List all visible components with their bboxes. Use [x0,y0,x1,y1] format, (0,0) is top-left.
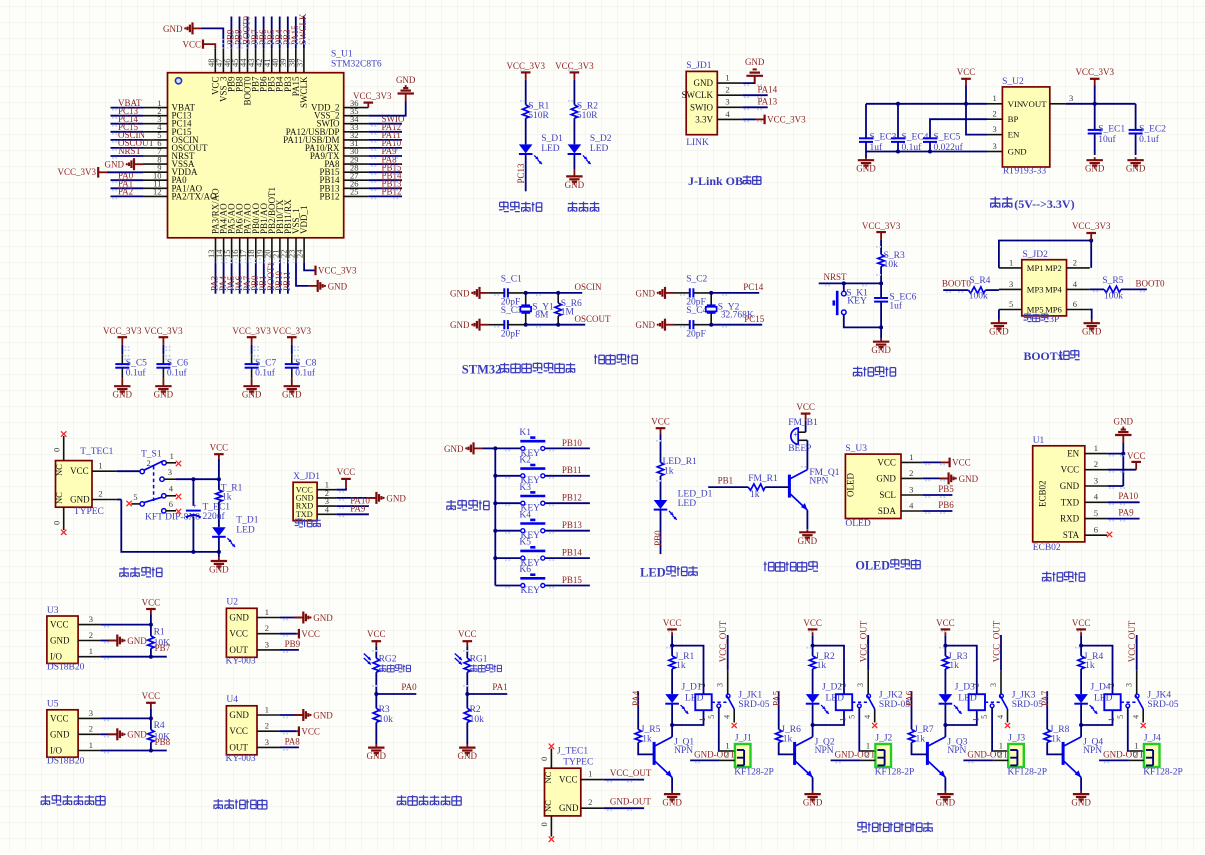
pin 3 output [160,477,164,481]
power VCC [1076,628,1086,630]
pin 34 SWIO [344,123,369,125]
svg-text:2: 2 [909,468,913,478]
capacitor S_C4 20pF [674,324,690,326]
svg-text:SDA: SDA [878,506,897,516]
wire pin35 [368,102,405,116]
IC S_U3 OLED body [845,454,901,518]
power VCC_3V3 [364,101,374,103]
svg-text:KF128-2P: KF128-2P [875,768,915,778]
wire emitter to gnd [812,777,814,791]
wire S_R1 to S_D1 [525,118,527,144]
wire pin36 [367,103,369,108]
wire net PA12 [368,131,402,133]
capacitor S_EC1 10uf [1094,104,1096,130]
svg-text:J_J2: J_J2 [875,734,892,744]
svg-text:FM_B1: FM_B1 [788,418,818,428]
power VCC_3V3 [314,266,316,276]
pin 4 TXD [1085,501,1107,503]
svg-text:2: 2 [1107,683,1116,687]
pin 3 VCC [78,624,100,626]
svg-text:1: 1 [1094,443,1098,453]
svg-text:S_R1: S_R1 [528,101,549,111]
connector J_J3 KF128-2P body [1008,744,1024,767]
pin 1 I/O [78,750,100,752]
wire net OSCOUT [558,324,585,326]
svg-text:3: 3 [909,484,913,494]
wire en/gnd to ground [1107,453,1123,455]
svg-text:BOOT0: BOOT0 [1136,278,1165,288]
svg-text:2: 2 [725,85,729,95]
no-connect [732,723,737,728]
wire BP branch [930,119,987,138]
wire net PB5 [271,17,273,49]
svg-text:NC: NC [54,464,64,476]
ground [108,733,117,735]
wire sw3 to node [176,478,219,480]
svg-text:0.1uf: 0.1uf [295,367,316,378]
pin 2 PC13 [143,115,168,117]
svg-text:3: 3 [265,639,269,649]
svg-text:S_EC2: S_EC2 [1139,125,1166,135]
pin 33 PA12/USB/DP [344,131,369,133]
svg-text:3: 3 [265,737,269,747]
power VCC_3V3 [521,71,531,73]
svg-text:VCC_3V3: VCC_3V3 [506,61,545,71]
wire contact5 to connector [1128,708,1129,751]
wire base [779,742,795,754]
switch K1 KEY [495,447,520,449]
svg-text:VCC_3V3: VCC_3V3 [144,326,183,336]
svg-text:PC13: PC13 [516,163,526,184]
svg-text:T_S1: T_S1 [141,450,162,460]
svg-text:2: 2 [1094,459,1098,469]
wire net OSCOUT [111,147,144,149]
svg-text:EN: EN [1008,130,1020,140]
wire net PB11 [287,262,289,294]
svg-text:J_TEC1: J_TEC1 [557,747,588,757]
resistor J_R1 1k [671,646,673,656]
svg-text:4: 4 [725,109,730,119]
no-connect [1005,723,1010,728]
svg-text:VCC: VCC [301,629,320,639]
pin 42 PB6 [263,48,265,72]
svg-text:DS18B20: DS18B20 [47,663,85,673]
svg-text:VCC_3V3: VCC_3V3 [1075,67,1114,77]
svg-text:PA6: PA6 [904,690,914,706]
svg-text:1k: 1k [642,734,652,744]
pin 4 nc [1142,709,1144,723]
ground [812,791,814,794]
pin 47 VSS_3 [222,48,224,72]
power VCC [298,726,300,736]
svg-text:2: 2 [993,109,997,119]
wire collector [944,725,946,737]
svg-text:GND: GND [396,75,416,85]
capacitor S_C2 20pF [674,292,690,294]
svg-text:TYPEC: TYPEC [74,507,104,517]
connector T_TEC1 TYPEC body [56,461,93,508]
svg-text:GND: GND [313,613,333,623]
svg-text:3: 3 [1069,93,1073,103]
pin 3 GND [987,151,1002,153]
pin 3 VCC [78,717,100,719]
wire net GND-OUT [690,759,720,761]
svg-text:GND: GND [936,798,956,808]
pin 2 VCC [257,633,279,635]
relay J_JK4 SRD-05 coil [1104,694,1120,710]
wire emitter to gnd [671,777,673,791]
svg-text:LED: LED [640,566,666,580]
no-connect [176,509,181,514]
LED J_D1 [671,669,673,694]
svg-text:OUT: OUT [229,742,248,752]
pin 25 PB12 [344,195,369,197]
relay J_JK1 SRD-05 coil [695,694,711,710]
ground [1135,157,1137,160]
wire to gnd [466,722,468,744]
svg-text:1: 1 [839,718,848,722]
svg-text:VCC_3V3: VCC_3V3 [555,61,594,71]
svg-text:MP4: MP4 [1045,284,1062,294]
svg-text:2: 2 [971,683,980,687]
wire net OSCIN [558,292,582,294]
title 光照采集电路 [397,796,406,798]
svg-text:5: 5 [847,715,856,719]
wire net PB7 [255,17,257,49]
pin 45 PB8 [239,48,241,72]
wire net PB15 [545,585,590,587]
svg-text:KEY: KEY [521,586,541,596]
wire to T_D1 [218,502,220,527]
svg-text:PB5: PB5 [938,484,954,494]
wire r4 to pin3 [985,289,999,291]
svg-text:J_JK2: J_JK2 [879,690,903,700]
svg-text:VCC_3V3: VCC_3V3 [353,91,392,101]
wire net BOOT0 left [943,289,968,291]
pin 38 PA15 [295,48,297,72]
capacitor S_EC3 1uf [865,104,867,139]
svg-text:K5: K5 [519,538,531,548]
svg-text:PA8: PA8 [285,737,301,747]
wire to T_R1 [218,479,220,490]
pin 2 GND [78,640,100,642]
pin 30 PA9/TX [344,155,369,157]
svg-text:GND: GND [1082,327,1102,337]
power VCC_3V3 [1090,78,1100,80]
svg-text:GND: GND [127,636,147,646]
capacitor S_C1 20pF [489,292,505,294]
svg-text:TXD: TXD [296,510,313,519]
pin 2 GND [581,807,604,809]
svg-text:GND: GND [209,565,229,575]
svg-text:OUT: OUT [229,645,248,655]
power VCC [341,478,351,480]
pin 43 PB7 [255,48,257,72]
grid dots [216,258,298,260]
ground [291,379,293,387]
wire vcc stem [805,414,807,421]
svg-text:MP5: MP5 [1027,305,1044,315]
svg-text:5: 5 [1009,299,1013,309]
svg-text:0.1uf: 0.1uf [1139,134,1160,145]
svg-text:4: 4 [723,715,732,719]
svg-text:VCC: VCC [70,466,89,476]
wire net PA14 [742,94,768,96]
ground [480,324,489,326]
pin 3 RXD [317,505,336,507]
svg-text:3: 3 [89,614,93,624]
svg-text:GND: GND [70,494,90,504]
svg-text:2: 2 [98,488,102,498]
title 电源（5V-3.3V） [990,198,1000,200]
svg-text:10k: 10k [884,260,899,270]
svg-text:STM32: STM32 [462,362,502,376]
svg-text:3.3V: 3.3V [695,114,713,124]
svg-text:3: 3 [993,124,997,134]
capacitor S_C8 0.1uf [291,345,293,355]
wire net PA4 [223,262,225,294]
wire emitter to gnd [944,777,946,791]
capacitor S_C6 0.1uf [162,345,164,355]
svg-text:0.1uf: 0.1uf [167,367,188,378]
wire r1 to base [765,486,789,488]
svg-text:GND: GND [313,710,333,720]
pin 6 nc [162,509,166,513]
svg-text:GND: GND [856,164,876,174]
ground [294,714,303,716]
svg-text:VCC: VCC [458,629,477,639]
svg-text:1M: 1M [561,308,575,318]
svg-text:U4: U4 [226,695,238,705]
pin 4 PC15 [143,131,168,133]
wire vcc row [279,633,296,635]
svg-text:GND: GND [113,390,133,400]
svg-text:510R: 510R [528,111,549,121]
svg-text:5: 5 [707,715,716,719]
wire vcc row [100,717,150,719]
power VCC [372,640,382,642]
svg-text:PA1: PA1 [492,682,507,692]
svg-text:R2: R2 [470,705,481,715]
relay J_JK4 contact [1121,701,1136,703]
svg-text:0: 0 [52,448,62,452]
svg-text:R4: R4 [154,721,165,731]
wire net BOOT0 [247,17,249,49]
ground [405,94,407,102]
svg-text:LED: LED [590,144,609,154]
svg-text:U2: U2 [226,598,238,608]
svg-text:1k: 1k [817,661,827,671]
svg-text:GND: GND [1071,798,1091,808]
power VCC_3V3 [97,167,99,178]
ground [1080,791,1082,794]
pin 1 VBAT [143,107,168,109]
svg-text:GND: GND [1114,417,1134,427]
pin 3 PC14 [143,123,168,125]
wire rail bottom [526,324,559,326]
power VCC_3V3 [1086,232,1096,234]
wire net GND-OUT [963,759,993,761]
ground [218,558,220,561]
relay J_JK2 contact [852,701,867,703]
svg-text:20pF: 20pF [501,329,521,339]
svg-text:OLED: OLED [855,558,890,572]
svg-text:NC: NC [54,492,64,504]
wire pin4 [742,118,756,120]
svg-text:100k: 100k [1104,292,1123,302]
svg-text:GND: GND [1126,164,1146,174]
title 蓝牙模块 [1042,573,1051,575]
power VCC_3V3 [118,336,128,338]
ground [865,157,867,160]
wire net PB7 [100,656,166,658]
wire net PA7 [1046,691,1048,729]
resistor T_R1 1k [216,490,222,502]
svg-text:PB0: PB0 [653,530,663,546]
ground [940,477,949,479]
svg-text:VCC_OUT: VCC_OUT [610,768,652,778]
IC U4 KY-003 body [226,706,257,755]
svg-text:SWCLK: SWCLK [682,90,714,100]
pin 2 VCC [1085,469,1107,471]
svg-text:1: 1 [89,646,93,656]
svg-text:3: 3 [1009,279,1013,289]
svg-text:3: 3 [856,683,865,687]
svg-text:(5V-->3.3V): (5V-->3.3V) [1014,197,1074,211]
ground [108,640,117,642]
wire net PB12 [545,502,590,504]
pin 3 GND [1085,485,1107,487]
title 可编程灯 [500,201,508,203]
switch K3 KEY [495,502,520,504]
svg-text:1uf: 1uf [870,142,884,153]
svg-text:GND: GND [662,798,682,808]
ground [474,447,483,449]
wire S_R2 top [573,80,575,105]
svg-text:LED: LED [541,144,560,154]
pin 1 EN [1085,453,1107,455]
svg-text:DS18B20: DS18B20 [47,756,85,766]
svg-text:GND: GND [367,751,387,761]
svg-text:J_JK3: J_JK3 [1012,690,1036,700]
wire pin23 [296,262,309,286]
svg-text:VCC: VCC [337,467,356,477]
svg-text:4: 4 [996,715,1005,719]
svg-text:S_D1: S_D1 [541,134,563,144]
wire vcc stem [218,454,220,459]
pin 39 PB3 [287,48,289,72]
pin 36 VDD_2 [344,107,369,109]
power VCC [202,40,204,49]
svg-text:ECB02: ECB02 [1033,543,1061,553]
pin 18 PB0/AO [255,238,257,262]
svg-text:VCC: VCC [1127,451,1146,461]
power VCC_3V3 [247,336,257,338]
svg-text:PB12: PB12 [562,493,582,503]
svg-text:NC: NC [543,800,553,812]
buzzer FM_B1 BEEP [791,428,798,444]
pin 0 bottom [550,816,552,837]
svg-text:U3: U3 [47,606,59,616]
resistor S_R1 510R [523,105,529,119]
svg-text:BOOT0: BOOT0 [942,278,971,288]
svg-text:KY-003: KY-003 [226,656,256,666]
svg-text:OSCOUT: OSCOUT [575,314,612,324]
resistor J_R2 1k [812,646,814,656]
svg-text:TXD: TXD [1061,497,1080,507]
svg-text:T_D1: T_D1 [236,516,258,526]
resistor J_R7 1k [908,729,914,742]
svg-text:R1: R1 [154,627,165,637]
capacitor S_EC2 0.1uf [1135,104,1137,130]
pin 11 PA1/AO [143,187,168,189]
svg-text:BOOTx: BOOTx [1024,349,1064,363]
svg-text:VCC: VCC [182,39,201,49]
svg-text:K2: K2 [519,455,531,465]
svg-text:0: 0 [52,521,62,525]
pin 0 top [63,436,65,461]
svg-text:GND-OUT: GND-OUT [967,749,1008,759]
crystal S_Y2 32.768K [710,293,712,306]
svg-text:S_R4: S_R4 [969,276,990,286]
pin 4 TXD [317,513,336,515]
svg-text:VCC: VCC [651,417,670,427]
svg-text:I/O: I/O [50,746,62,756]
wire net PA9 [336,513,369,515]
wire net PB13 [545,530,590,532]
label 光敏电阻 [379,665,386,667]
wire collector [812,725,814,737]
svg-text:J_J4: J_J4 [1144,734,1161,744]
ground [121,379,123,387]
wire net PB9 [230,17,232,49]
svg-text:GND: GND [282,390,302,400]
pin 6 MP6 [1067,309,1090,311]
svg-text:+: + [192,502,197,511]
resistor J_R3 1k [944,646,946,656]
svg-text:VCC: VCC [142,597,161,607]
pin 2 GND [78,733,100,735]
svg-text:SCL: SCL [879,490,896,500]
wire net PC13 [111,115,144,117]
ground [754,76,756,83]
svg-text:KF128-2P: KF128-2P [734,768,774,778]
pin 6 STA [1085,534,1107,536]
pin 28 PB15 [344,171,369,173]
pin 2 GND [901,477,922,479]
svg-text:S_EC1: S_EC1 [1098,125,1125,135]
ground [294,617,303,619]
svg-text:J-Link OB: J-Link OB [688,174,743,188]
power VCC [656,427,666,429]
svg-text:1: 1 [971,718,980,722]
wire net BOOT1 [271,262,273,294]
svg-text:2: 2 [1134,749,1138,759]
svg-text:NRST: NRST [118,146,142,156]
power VCC [961,78,971,80]
svg-text:VCC: VCC [803,618,822,628]
wire vcc stem [671,629,673,635]
power VCC [667,628,677,630]
wire pin1 to gnd [742,76,755,83]
svg-text:PB8: PB8 [155,737,171,747]
wire net PB10 [279,262,281,294]
wire pin1 to vcc [336,488,346,490]
wire gnd row [100,733,111,735]
wire to LED_D1 [660,476,662,500]
wire rail top [526,292,559,294]
pin 3 SWIO [717,106,742,108]
